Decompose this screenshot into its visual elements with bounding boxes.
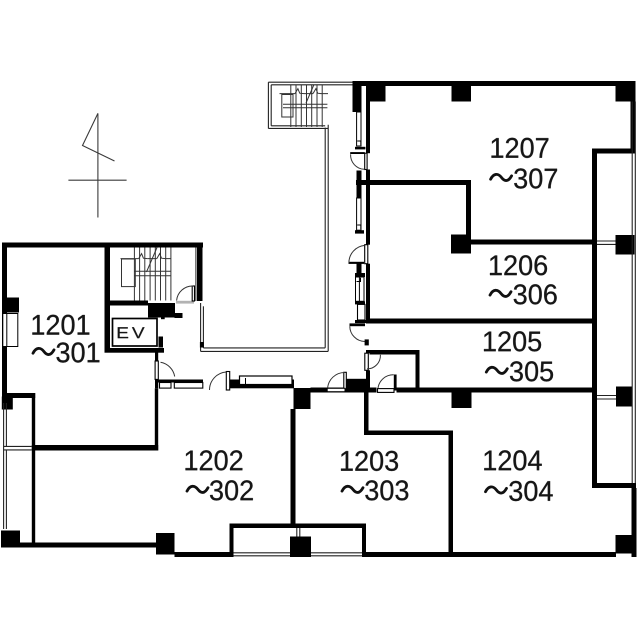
meter box unit 1205 [358, 304, 366, 320]
divider 1202/1203 [291, 409, 296, 524]
EV step [161, 317, 165, 319]
column C3 top right corner [616, 85, 635, 102]
step stub [3, 393, 35, 398]
balcony left thin lines [4, 403, 32, 529]
door 1202 arc [209, 372, 226, 390]
stair enclosure top [268, 81, 352, 83]
wall left [2, 243, 7, 398]
wall stub [355, 273, 365, 277]
window hook [357, 141, 361, 145]
tilde marks [33, 174, 512, 493]
elevator label text EV [118, 327, 145, 338]
small column [2, 397, 13, 410]
EV shaft bottom wall [105, 348, 165, 353]
wall bottom B left [175, 552, 231, 557]
door B leaf [378, 389, 395, 393]
wall solid piece [357, 85, 362, 112]
genkan area [158, 372, 294, 391]
west side [200, 303, 202, 351]
door 1202 leaf [226, 372, 229, 391]
landing double lines [283, 103, 327, 105]
door unit 1207 top bar [350, 152, 365, 154]
cut line with breaks [121, 258, 171, 260]
genkan east door sill [327, 388, 345, 391]
genkan east door arc [328, 373, 345, 389]
door unit 1206 arc [349, 245, 365, 263]
wall balcony bottom [592, 483, 636, 488]
stair enclosure bottom [268, 127, 328, 129]
column below stairs [148, 303, 175, 318]
stairs (top) treads [280, 85, 329, 128]
column C1 top [368, 85, 386, 102]
bottom [201, 350, 329, 352]
door unit 1205 arc [350, 326, 365, 341]
counter [240, 376, 293, 385]
junction tick [200, 342, 204, 348]
room label text 305 [510, 361, 553, 381]
column in box [290, 537, 311, 558]
door unit 1205 leaf bar [350, 323, 366, 326]
column C2 top [452, 82, 472, 102]
wall top (left block) [2, 243, 203, 248]
stairs (left block) treads [121, 248, 171, 301]
corridor-side wall with unit doors/windows [349, 85, 369, 345]
window 1201 left wall [3, 314, 18, 347]
door A arc [367, 355, 380, 369]
window unit 1207 [357, 112, 361, 146]
room label text 1207 [492, 138, 549, 158]
stair block (left) walls [105, 243, 203, 353]
divider tick [355, 320, 369, 323]
east side [327, 125, 329, 352]
compartment (1205 bath) [365, 350, 420, 392]
column [452, 392, 472, 408]
genkan east door leaf [344, 372, 347, 389]
north arrow [68, 113, 126, 217]
room label text 303 [365, 480, 408, 500]
door 1201 (leaf + arc) [155, 361, 175, 379]
divider 1203/1204 [364, 393, 453, 556]
window hook [357, 225, 361, 229]
door B jamb [394, 375, 397, 391]
wall stub [355, 230, 364, 233]
room label text 307 [514, 168, 557, 188]
up arrow [147, 248, 158, 273]
room label text 1204 [484, 450, 541, 470]
room label text 306 [514, 284, 557, 304]
wall corridor room-side [366, 85, 370, 153]
wall solid piece [357, 263, 362, 274]
EV right stub [159, 337, 164, 348]
door unit 1206 sill bar [349, 262, 365, 264]
landing rail [282, 95, 293, 118]
room label text 301 [57, 342, 100, 362]
balcony divider at 1206/1207 [597, 240, 616, 242]
cut line with breaks [280, 93, 329, 95]
wall balcony top [592, 149, 636, 154]
wall bottom B right [366, 552, 617, 557]
window unit 1206 [357, 198, 361, 230]
wall outer right upper [631, 85, 636, 153]
wall corner piece [365, 339, 369, 345]
stair door (left block) [176, 248, 196, 304]
wall bottom A [19, 543, 158, 548]
room label text 1201 [32, 315, 89, 335]
balcony divider at 1205 bottom [597, 395, 616, 397]
wall outer right lower [632, 488, 637, 557]
door unit 1206 leaf [365, 245, 368, 264]
up arrow [306, 85, 314, 104]
walls-topright-block [353, 81, 637, 557]
column balcony at divider [616, 235, 635, 255]
door unit 1207 arc [351, 154, 365, 169]
column bottom right [616, 535, 635, 554]
column left wall [3, 298, 20, 313]
wall inner west [32, 393, 35, 543]
door unit 1207 leaf [365, 153, 367, 169]
void / corridor thin double lines [201, 82, 353, 351]
column bottom left [1, 531, 20, 548]
landing double lines [134, 270, 171, 272]
left block [1, 243, 635, 558]
divider 1201/1202 [32, 445, 158, 451]
divider 1207/1206 [356, 180, 635, 255]
wall east of 1201 lower [155, 379, 158, 388]
wall top (right block) [353, 81, 636, 86]
landing rail [122, 259, 136, 287]
door B arc [378, 375, 394, 389]
wall NW jamb [353, 81, 362, 112]
window unit 1205 [356, 277, 365, 301]
room label text 1202 [186, 450, 243, 470]
door sill 2 [174, 383, 203, 389]
bottom center box [230, 524, 367, 558]
genkan east wall band [346, 379, 366, 388]
wall solid piece [357, 171, 362, 181]
room label text 302 [210, 480, 253, 500]
column balcony [616, 387, 632, 407]
wall east of 1201 upper [155, 352, 158, 361]
room label text 1206 [490, 255, 547, 275]
wall A east part [230, 380, 295, 389]
balcony right thin lines [597, 102, 635, 484]
stair enclosure left [267, 82, 269, 128]
column bottom mid [156, 533, 175, 555]
door sill 1 [160, 383, 172, 389]
room label text 1205 [484, 331, 541, 351]
wall stub [355, 301, 365, 304]
column at divider [451, 235, 471, 254]
door A leaf [365, 353, 369, 370]
column [294, 388, 311, 409]
wall room-balcony [592, 149, 597, 488]
wall stub [355, 147, 365, 150]
room label text 1203 [341, 451, 398, 471]
room label text 304 [509, 481, 552, 501]
wall 1205 bottom [294, 387, 633, 410]
wall A west part [158, 380, 203, 383]
elevator EV [113, 319, 158, 347]
divider 1206/1205 [366, 319, 592, 324]
